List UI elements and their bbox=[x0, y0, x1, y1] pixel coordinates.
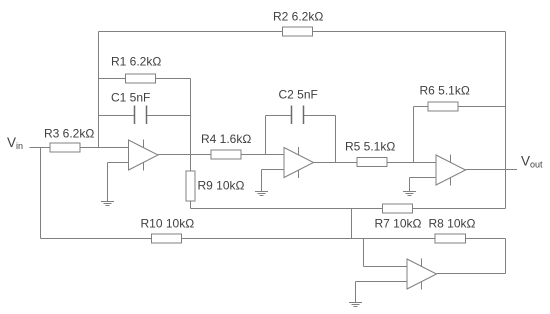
wire C2 branch right bbox=[304, 115, 336, 117]
capacitor C2 bbox=[292, 106, 304, 125]
resistor R2 bbox=[283, 27, 313, 36]
ground under U3 bbox=[403, 192, 416, 196]
wire U3 inverting to ground bbox=[409, 178, 411, 192]
svg-text:C2 5nF: C2 5nF bbox=[279, 88, 318, 102]
svg-text:R1 6.2kΩ: R1 6.2kΩ bbox=[111, 55, 161, 69]
resistor R1 bbox=[126, 74, 156, 83]
wire C2 branch left bbox=[266, 115, 292, 117]
svg-text:R7 10kΩ: R7 10kΩ bbox=[375, 217, 422, 231]
resistor R7 bbox=[383, 204, 413, 213]
resistor R9 bbox=[186, 171, 195, 201]
wire R6 branch bbox=[414, 106, 506, 108]
svg-text:R3 6.2kΩ: R3 6.2kΩ bbox=[44, 127, 94, 141]
wire R8 right to out4 vertical bbox=[505, 239, 507, 274]
capacitor C1 bbox=[135, 106, 147, 125]
wire top feedback rail bbox=[30, 32, 518, 303]
wire R6 left vertical bbox=[413, 107, 415, 163]
svg-text:R2 6.2kΩ: R2 6.2kΩ bbox=[273, 10, 323, 24]
wire C2 right vertical bbox=[335, 116, 337, 163]
wire out2 to U3 bbox=[314, 162, 437, 164]
op-amp U4 bbox=[407, 258, 437, 289]
resistor R6 bbox=[428, 102, 458, 111]
wire U4 inverting to ground bbox=[355, 282, 357, 303]
svg-text:R10 10kΩ: R10 10kΩ bbox=[141, 217, 195, 231]
ground under U1 bbox=[101, 202, 114, 206]
wire C1 branch left bbox=[99, 115, 135, 117]
wire mid-bottom R7 rail bbox=[191, 208, 506, 210]
wire C2 left vertical bbox=[265, 116, 267, 155]
op-amp U3 bbox=[436, 154, 466, 185]
wire left vertical of top loop bbox=[98, 32, 100, 148]
wire U2 inverting to ground bbox=[261, 170, 263, 192]
svg-text:R5 5.1kΩ: R5 5.1kΩ bbox=[345, 140, 395, 154]
wire U4 noninverting drop bbox=[363, 239, 365, 267]
op-amp U2 bbox=[284, 147, 314, 178]
svg-text:R8 10kΩ: R8 10kΩ bbox=[429, 217, 476, 231]
ground under U4 bbox=[349, 303, 362, 307]
resistor R10 bbox=[152, 234, 182, 243]
op-amp U1 bbox=[129, 139, 159, 170]
svg-text:R6 5.1kΩ: R6 5.1kΩ bbox=[420, 84, 470, 98]
wire U1 inverting input bbox=[108, 162, 129, 164]
wire U1 inverting to ground bbox=[107, 163, 109, 202]
ground under U2 bbox=[255, 192, 268, 196]
svg-text:C1 5nF: C1 5nF bbox=[111, 91, 150, 105]
wire right rail vertical bbox=[505, 32, 507, 209]
wire Vin drop to bottom rail bbox=[40, 148, 42, 239]
resistor R5 bbox=[357, 158, 387, 167]
wire U4 inverting input bbox=[356, 281, 408, 283]
svg-text:R4 1.6kΩ: R4 1.6kΩ bbox=[201, 132, 251, 146]
wire junction drop x351 bbox=[351, 209, 353, 239]
wire node out1 vertical bbox=[190, 79, 192, 209]
wire bottom rail bbox=[41, 238, 506, 240]
resistor R3 bbox=[50, 143, 80, 152]
wire out3 to Vout bbox=[466, 169, 518, 171]
wire out1 to U2 bbox=[158, 154, 284, 156]
wire out4 bbox=[437, 273, 506, 275]
resistor R8 bbox=[435, 234, 466, 243]
wire U3 inverting input bbox=[410, 177, 437, 179]
wire Vin input bbox=[30, 147, 129, 149]
wire R1 branch bbox=[99, 78, 191, 80]
wire U4 noninverting input bbox=[364, 266, 408, 268]
resistor R4 bbox=[211, 150, 241, 159]
svg-text:R9 10kΩ: R9 10kΩ bbox=[198, 179, 245, 193]
wire U2 inverting input bbox=[262, 169, 285, 171]
wire C1 branch right bbox=[147, 115, 191, 117]
